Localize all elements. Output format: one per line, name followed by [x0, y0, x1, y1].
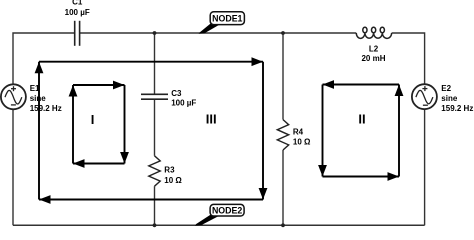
svg-text:R3: R3 [164, 165, 175, 174]
svg-text:E2: E2 [441, 84, 451, 93]
wire top: C1 to L2 [80, 32, 357, 34]
capacitor C1 [75, 21, 80, 46]
wire bottom [13, 224, 425, 226]
mesh III loop bottom side [39, 199, 263, 201]
svg-text:20 mH: 20 mH [361, 54, 385, 63]
svg-text:C3: C3 [171, 89, 182, 98]
resistor R3 [149, 156, 160, 186]
node NODE2 callout tail [195, 214, 220, 225]
mesh III loop right side [262, 62, 264, 200]
svg-text:100 µF: 100 µF [171, 99, 196, 108]
wire top-left: E1 top to C1 [13, 33, 75, 84]
svg-text:NODE1: NODE1 [212, 13, 242, 23]
svg-text:C1: C1 [72, 0, 83, 7]
mesh I loop right side [124, 85, 126, 164]
mesh I loop bottom side [73, 163, 125, 165]
mesh I loop top side [73, 84, 125, 86]
svg-text:10 Ω: 10 Ω [293, 138, 311, 147]
svg-text:159.2 Hz: 159.2 Hz [30, 104, 62, 113]
wire middle branch: NODE1 to C3 top [154, 33, 156, 94]
source E2 [412, 84, 437, 109]
node NODE2 callout box [210, 204, 244, 216]
svg-text:100 µF: 100 µF [65, 8, 90, 17]
wire middle branch: C3 bottom to R3 top [154, 99, 156, 156]
svg-text:III: III [206, 112, 217, 127]
capacitor C3 [141, 94, 168, 99]
junction top R4 branch [281, 31, 285, 35]
svg-text:sine: sine [30, 94, 47, 103]
junction bottom C3 branch [153, 223, 157, 227]
svg-text:I: I [91, 112, 95, 127]
node NODE1 callout box [210, 12, 244, 25]
mesh II loop bottom side [323, 176, 400, 178]
mesh II loop left side [322, 85, 324, 177]
wire R4 branch: top wire to R4 [282, 33, 284, 120]
source E1 [1, 84, 26, 109]
node NODE1 callout tail [199, 23, 220, 34]
junction top C3 branch [153, 31, 157, 35]
resistor R4 [277, 120, 288, 150]
junction bottom R4 branch [281, 223, 285, 227]
wire right: E2 bottom to bottom-right corner [424, 109, 426, 225]
svg-text:159.2 Hz: 159.2 Hz [441, 104, 473, 113]
wire middle branch: R3 bottom to NODE2 [154, 186, 156, 225]
svg-text:L2: L2 [369, 45, 379, 54]
svg-text:10 Ω: 10 Ω [164, 176, 182, 185]
svg-text:sine: sine [441, 94, 458, 103]
mesh III loop left side [38, 62, 40, 200]
svg-text:NODE2: NODE2 [212, 206, 242, 216]
wire top-right: L2 to E2 top [392, 33, 425, 84]
mesh II loop top side [323, 84, 400, 86]
svg-text:R4: R4 [293, 127, 304, 136]
svg-text:II: II [358, 111, 365, 126]
mesh III loop top side [39, 61, 263, 63]
wire left: E1 bottom to bottom-left corner [12, 109, 14, 225]
inductor L2 [356, 27, 391, 38]
mesh II loop right side [398, 85, 400, 177]
wire R4 branch: R4 to bottom wire [282, 150, 284, 225]
mesh I loop left side [72, 85, 74, 164]
